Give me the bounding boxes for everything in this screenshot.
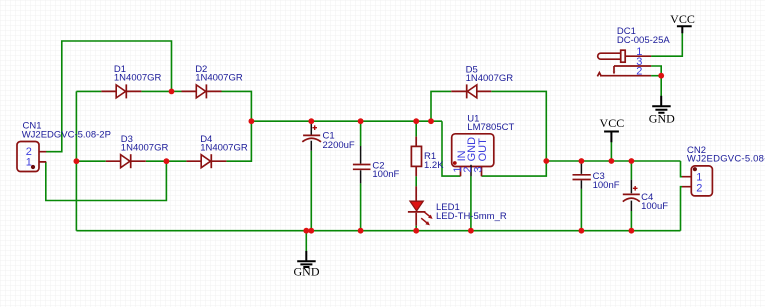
wire R1 top bbox=[415, 121, 417, 136]
wire rail corner down to U1 pin1 bbox=[442, 121, 461, 176]
node VIN junction C2 top bbox=[358, 118, 364, 124]
ground symbol GND (top right, DC1) bbox=[652, 96, 671, 113]
wire D5 cathode to OUT node and U1 pin3 bbox=[482, 91, 547, 176]
node VIN junction bridge output bbox=[249, 118, 255, 124]
wire D4 cathode up to positive rail bbox=[226, 121, 251, 161]
svg-text:1.2K: 1.2K bbox=[424, 160, 444, 171]
power symbol VCC (output rail) bbox=[604, 132, 619, 143]
svg-text:100nF: 100nF bbox=[593, 180, 620, 191]
capacitor C4 100uF polarized bbox=[623, 180, 640, 211]
node GND junction LED1 cathode bbox=[413, 228, 419, 234]
wire CN2 pin2 riser bbox=[681, 187, 683, 231]
svg-text:LM7805CT: LM7805CT bbox=[467, 122, 514, 133]
svg-text:WJ2EDGVC-5.08-2P: WJ2EDGVC-5.08-2P bbox=[22, 129, 111, 140]
svg-text:1: 1 bbox=[26, 156, 32, 168]
svg-text:GND: GND bbox=[294, 265, 320, 279]
node VIN junction C1 top bbox=[308, 118, 314, 124]
wire AC2 junction to D4 anode bbox=[166, 160, 186, 162]
connector CN2 WJ2EDGVC-5.08-2P bbox=[682, 166, 712, 196]
svg-text:100nF: 100nF bbox=[372, 169, 399, 180]
wire VCC output rail bbox=[546, 160, 680, 162]
diode D5 (points left) bbox=[451, 84, 491, 98]
svg-text:VCC: VCC bbox=[600, 116, 625, 130]
capacitor C1 2200uF polarized bbox=[302, 121, 321, 151]
node VCC junction C3 top bbox=[579, 158, 585, 164]
voltage regulator U1 LM7805CT bbox=[452, 134, 494, 176]
wire CN1 pin1 detour to D3/D4 junction (net AC2) bbox=[46, 161, 167, 200]
node AC2 junction D3/D4 bbox=[164, 158, 170, 164]
wire to D1 anode bbox=[76, 90, 101, 92]
svg-text:1N4007GR: 1N4007GR bbox=[200, 142, 248, 153]
LED LED1 (points down) bbox=[408, 186, 433, 225]
svg-text:100uF: 100uF bbox=[641, 201, 668, 212]
node VIN junction R1 top bbox=[413, 118, 419, 124]
wire positive rail bbox=[251, 120, 442, 122]
node GND junction C2 bottom bbox=[358, 228, 364, 234]
svg-text:VCC: VCC bbox=[670, 12, 695, 26]
wire DC1 pin1 to VCC bbox=[651, 33, 682, 56]
wire negative column D1 anode to ground rail bbox=[75, 91, 77, 230]
diode D3 bbox=[106, 154, 146, 168]
svg-text:2: 2 bbox=[636, 66, 642, 78]
svg-text:2: 2 bbox=[696, 183, 702, 195]
diode D2 bbox=[182, 84, 222, 98]
wire R1 bottom to LED1 anode bbox=[415, 176, 417, 186]
power symbol VCC (top, at DC1) bbox=[677, 26, 692, 33]
wire C3 bottom to ground rail bbox=[580, 189, 582, 231]
node GND junction at DC1 pins 2/3 bbox=[658, 73, 664, 79]
node GND junction C1 bottom bbox=[308, 228, 314, 234]
node GND junction C3 bottom bbox=[579, 228, 585, 234]
wire CN2 pin1 drop bbox=[681, 161, 683, 177]
svg-text:GND: GND bbox=[649, 112, 675, 126]
wire AC1 junction to D2 anode bbox=[172, 90, 182, 92]
node GND junction GND symbol stub bbox=[303, 228, 309, 234]
svg-text:LED-TH-5mm_R: LED-TH-5mm_R bbox=[436, 211, 507, 222]
diode D4 bbox=[186, 154, 226, 168]
capacitor C2 100nF bbox=[353, 146, 371, 183]
wire LED1 cathode to ground rail bbox=[415, 226, 417, 231]
wire C4 bottom to ground rail bbox=[630, 211, 632, 231]
capacitor C3 100nF bbox=[573, 161, 591, 189]
node AC2 junction at D3 anode column bbox=[74, 158, 80, 164]
DC jack DC1 DC-005-25A bbox=[597, 50, 651, 76]
svg-text:DC-005-25A: DC-005-25A bbox=[617, 35, 670, 46]
wire to D3 anode bbox=[76, 160, 105, 162]
wire DC1 junction to GND symbol bbox=[660, 76, 662, 96]
wire ground rail bbox=[76, 230, 680, 232]
node VIN junction D5 branch bbox=[428, 118, 434, 124]
node GND junction U1 pin2 bbox=[468, 228, 474, 234]
wire D2 cathode down to positive rail bbox=[222, 91, 252, 121]
wire CN1 pin2 to D1/D2 junction (net AC1) bbox=[46, 41, 172, 152]
wire C4 top bbox=[630, 161, 632, 180]
wire C1 bottom to ground rail bbox=[310, 151, 312, 231]
node VCC junction C4 top bbox=[629, 158, 635, 164]
connector CN1 WJ2EDGVC-5.08-2P bbox=[17, 142, 46, 172]
node VCC junction D5/U1 OUT bbox=[543, 158, 549, 164]
svg-text:2200uF: 2200uF bbox=[323, 140, 355, 151]
wire C2 bottom to ground rail bbox=[360, 183, 362, 230]
wire ground rail stub to GND symbol bbox=[305, 231, 307, 251]
svg-text:WJ2EDGVC-5.08-2P: WJ2EDGVC-5.08-2P bbox=[687, 153, 765, 164]
svg-text:1N4007GR: 1N4007GR bbox=[121, 142, 169, 153]
node VCC junction VCC symbol bbox=[609, 158, 615, 164]
wire D1 cathode to AC1 junction bbox=[141, 90, 171, 92]
svg-text:1N4007GR: 1N4007GR bbox=[114, 73, 162, 84]
ground symbol GND (bottom rail) bbox=[297, 251, 316, 267]
node GND junction C4 bottom bbox=[629, 228, 635, 234]
wire D5 anode branch from rail bbox=[431, 91, 451, 121]
wire DC1 pin2 to junction bbox=[651, 75, 661, 77]
svg-text:1N4007GR: 1N4007GR bbox=[466, 73, 514, 84]
node AC1 junction D1/D2 bbox=[169, 89, 175, 95]
wire D3 cathode to AC2 junction bbox=[146, 160, 167, 162]
wire VCC symbol drop bbox=[610, 142, 612, 161]
wire C2 top bbox=[360, 121, 362, 146]
svg-text:1N4007GR: 1N4007GR bbox=[195, 73, 243, 84]
wire DC1 pin3 down bbox=[651, 66, 661, 76]
svg-text:OUT: OUT bbox=[477, 138, 489, 162]
diode D1 bbox=[101, 84, 141, 98]
resistor R1 1.2K bbox=[411, 137, 421, 177]
wire U1 pin2 down to ground rail bbox=[470, 176, 472, 231]
svg-text:3: 3 bbox=[473, 166, 485, 172]
